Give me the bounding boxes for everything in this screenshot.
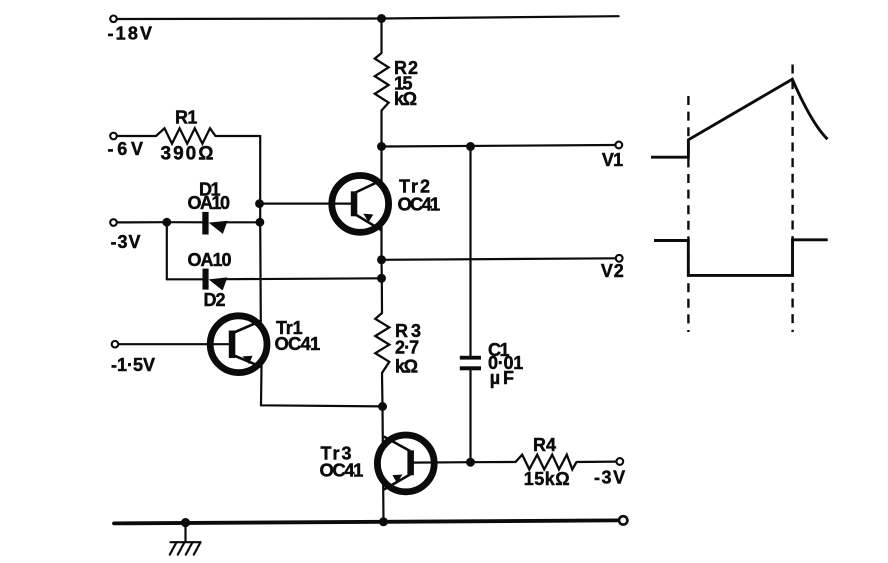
svg-text:OA10: OA10 — [188, 250, 232, 270]
diode D1 OA10 triangle — [209, 221, 228, 234]
terminal -3V right — [616, 458, 623, 465]
terminal V2 — [616, 255, 623, 262]
wire R4 to -3V terminal — [577, 461, 617, 464]
terminal -1.5V — [112, 341, 119, 348]
wire D1 row right — [227, 221, 260, 223]
waveform V2 square pulse trace — [654, 240, 828, 276]
wire main vertical through Tr2: V1 node to V2 node — [380, 147, 382, 260]
junction dot Tr2 base node — [255, 199, 264, 208]
resistor R3 2.7k — [375, 313, 389, 373]
svg-text:OA10: OA10 — [188, 193, 231, 213]
dashed timing line right — [791, 65, 793, 333]
wire D2 row left — [167, 278, 203, 280]
resistor R1 390 ohm — [156, 128, 216, 143]
junction dot D2 node — [377, 274, 386, 283]
capacitor C1 bottom plate — [460, 366, 481, 370]
transistor Tr1 OC41 — [119, 316, 267, 373]
wire D2 row right to main line — [227, 277, 382, 280]
capacitor C1 top plate — [460, 356, 481, 360]
transistor Tr3 OC41 — [377, 435, 470, 492]
svg-text:OC41: OC41 — [275, 333, 321, 354]
wire -3V node down to D2 row — [166, 222, 168, 279]
wire main vertical through Tr3 down to ground rail — [383, 407, 384, 522]
dashed timing line left — [687, 96, 689, 332]
terminal -6V — [110, 133, 117, 140]
svg-text:D2: D2 — [204, 290, 226, 310]
svg-text:-3V: -3V — [594, 468, 625, 488]
junction dot -3V node — [162, 218, 171, 227]
wire Tr1 emitter to R3 bottom node — [261, 366, 383, 406]
wire D1 row left — [167, 221, 203, 223]
svg-text:-6V: -6V — [108, 139, 144, 159]
wire V1 output line — [382, 145, 615, 147]
wire ground rail — [114, 520, 617, 523]
svg-text:V2: V2 — [601, 261, 624, 281]
wire -3V terminal to node — [117, 221, 167, 223]
wire main vertical: V2 node to R3 — [380, 260, 383, 313]
junction dot V1 node — [377, 142, 386, 151]
wire main vertical: R3 to node — [381, 373, 384, 407]
svg-text:kΩ: kΩ — [394, 89, 417, 109]
diode D2 OA10 cathode bar — [203, 269, 209, 290]
junction dot D1 anode node — [256, 218, 265, 227]
resistor R2 15k — [375, 53, 389, 111]
junction dot Tr3 emitter ground node — [379, 517, 388, 526]
wire C1 branch upper: V1 node down to C1 — [469, 147, 471, 357]
wire R1 to corner node — [216, 135, 261, 137]
junction dot R3 bottom node — [378, 402, 387, 411]
junction dot ground symbol node — [181, 518, 190, 527]
junction dot C1 / Tr3 base / R4 node — [466, 458, 475, 467]
svg-text:V1: V1 — [602, 150, 623, 170]
svg-text:R4: R4 — [533, 435, 556, 455]
wire main vertical: top rail to R2 — [380, 19, 382, 54]
wire top -18V rail — [117, 16, 619, 19]
diode D2 OA10 triangle — [209, 277, 228, 290]
svg-text:2·7: 2·7 — [395, 338, 419, 358]
wire -6V to R1 — [117, 135, 156, 137]
svg-text:390Ω: 390Ω — [161, 144, 214, 165]
svg-text:OC41: OC41 — [398, 194, 441, 215]
wire vertical from R1 corner down to Tr1 collector — [259, 136, 262, 322]
svg-text:R1: R1 — [175, 108, 197, 128]
terminal -18V — [110, 15, 117, 22]
svg-text:OC41: OC41 — [320, 460, 364, 481]
wire V2 output line — [382, 258, 616, 260]
svg-text:-3V: -3V — [111, 232, 141, 252]
svg-text:15kΩ: 15kΩ — [524, 469, 570, 489]
junction dot V1 / C1 branch — [466, 142, 475, 151]
svg-text:kΩ: kΩ — [395, 357, 418, 377]
junction dot V2 node — [377, 255, 386, 264]
resistor R4 15k — [516, 455, 577, 470]
junction dot top rail / R2 — [377, 14, 386, 23]
waveform V1 sawtooth trace — [651, 79, 828, 157]
wire Tr3 base node to R4 — [471, 461, 516, 463]
ground earth symbol — [170, 523, 201, 555]
terminal ground rail right — [619, 516, 627, 524]
wire main vertical: R2 to V1 node — [380, 111, 382, 147]
diode D1 OA10 cathode bar — [202, 212, 208, 235]
svg-text:-1·5V: -1·5V — [111, 355, 155, 375]
svg-text:-18V: -18V — [108, 24, 153, 44]
terminal V1 — [615, 142, 622, 149]
wire C1 branch lower: C1 to Tr3 base node — [469, 370, 471, 462]
terminal -3V — [110, 219, 117, 226]
transistor Tr2 OC41 — [260, 176, 389, 233]
